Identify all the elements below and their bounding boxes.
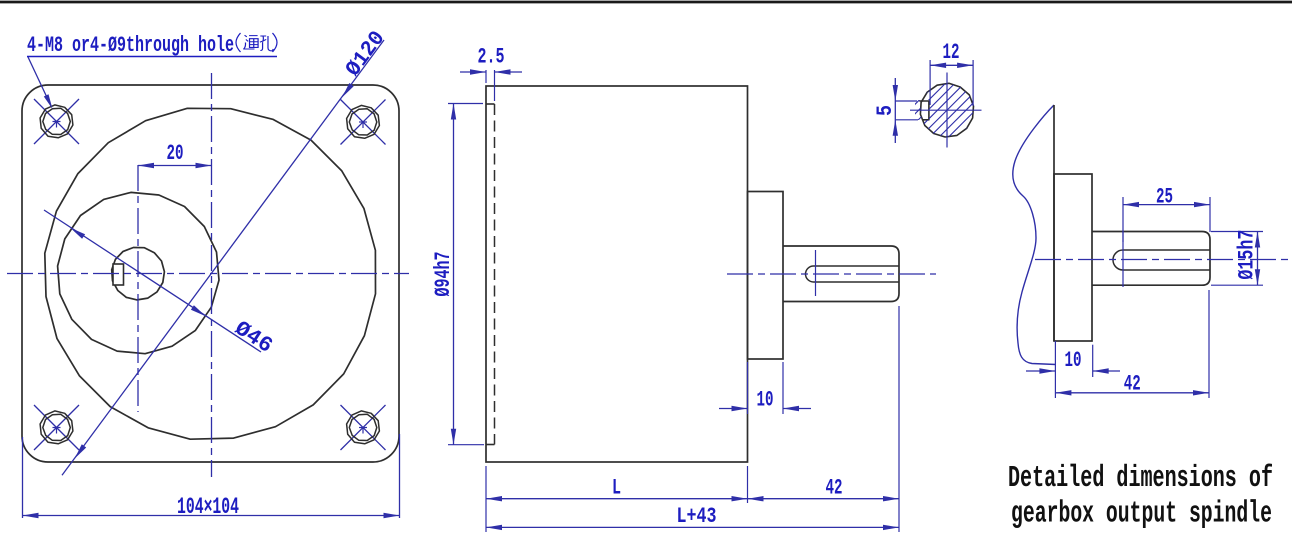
mounting bolt/nut at (56.5,121.5) — [34, 99, 79, 144]
dimension 42 — [748, 496, 764, 501]
keyway slot (detail) — [1113, 250, 1210, 270]
gearbox face line — [1053, 105, 1055, 341]
svg-text:5: 5 — [873, 105, 898, 116]
break (wavy) line — [1013, 105, 1056, 365]
mounting bolt/nut at (56.5,427.5) — [34, 405, 79, 450]
output shaft (detail) — [1092, 232, 1210, 286]
dimension L — [486, 498, 748, 500]
keyway center tick (detail) — [1122, 232, 1124, 288]
underline of label — [27, 56, 277, 58]
dimension D15h7 — [1211, 231, 1263, 233]
front boss step bottom — [486, 444, 495, 446]
dimension 12 — [929, 60, 931, 105]
svg-text:104×104: 104×104 — [177, 494, 239, 520]
shaft center line — [727, 273, 936, 275]
svg-text:2.5: 2.5 — [478, 45, 505, 70]
svg-text:10: 10 — [757, 388, 774, 413]
boss circle D46 (faceted) — [58, 192, 219, 353]
dimension 42 (detail) — [1054, 341, 1056, 398]
svg-text:L+43: L+43 — [677, 504, 717, 529]
flange outline (front view, 104x104 square) — [22, 85, 399, 462]
dimension 25 — [1122, 197, 1124, 242]
keyway notch — [919, 101, 929, 120]
output flange step — [748, 192, 784, 360]
dimension 20 (shaft offset) — [138, 165, 212, 167]
dimension D120 diagonal line — [62, 40, 384, 475]
svg-text:42: 42 — [1124, 372, 1141, 397]
dimension L+43 — [486, 526, 899, 528]
keyway center tick — [815, 250, 817, 296]
leader line to bolt hole — [28, 57, 51, 106]
svg-text:25: 25 — [1156, 185, 1173, 210]
svg-text:Ø15h7: Ø15h7 — [1235, 230, 1260, 280]
output flange step (detail) — [1054, 174, 1092, 341]
svg-text:Detailed dimensions of: Detailed dimensions of — [1008, 461, 1273, 496]
svg-text:20: 20 — [167, 141, 184, 166]
dimension 5 — [894, 78, 896, 143]
dimension D94h7 — [448, 103, 483, 105]
shaft hole circle (faceted) — [112, 248, 165, 300]
svg-text:42: 42 — [826, 476, 843, 501]
dimension 10 (flange width) — [747, 362, 749, 414]
gearbox body (side view) — [486, 86, 748, 462]
shaft keyway slot — [806, 266, 900, 282]
vertical center line of shaft — [137, 165, 139, 412]
extension lines bottom — [485, 466, 487, 532]
svg-text:12: 12 — [943, 40, 960, 65]
hidden line of boss — [494, 104, 496, 445]
center line (detail) — [1035, 259, 1289, 261]
horizontal center line — [7, 273, 409, 275]
top border line — [0, 1, 1292, 4]
dimension 10 (detail) — [1092, 345, 1094, 377]
svg-text:10: 10 — [1065, 348, 1082, 373]
shaft cross-section circle — [920, 83, 973, 137]
dimension 2.5 — [485, 70, 487, 83]
output shaft — [783, 246, 899, 302]
vertical center line of flange — [211, 73, 213, 477]
svg-text:Ø94h7: Ø94h7 — [431, 252, 456, 297]
section center lines — [946, 73, 948, 148]
mounting bolt/nut at (363,427.5) — [341, 405, 386, 450]
svg-text:gearbox output spindle: gearbox output spindle — [1011, 497, 1272, 532]
svg-text:L: L — [612, 476, 621, 501]
dimension D46 diagonal line — [44, 210, 261, 352]
CJK text (through hole) — [236, 33, 277, 52]
mounting bolt/nut at (363,122) — [341, 100, 386, 145]
svg-text:4-M8 or4-Ø9through hole: 4-M8 or4-Ø9through hole — [27, 33, 234, 58]
keyway rectangle in shaft hole — [113, 264, 124, 285]
gearbox body circle (faceted) — [45, 108, 376, 439]
dimension 104x104 — [22, 437, 24, 518]
front boss step top — [486, 103, 495, 105]
